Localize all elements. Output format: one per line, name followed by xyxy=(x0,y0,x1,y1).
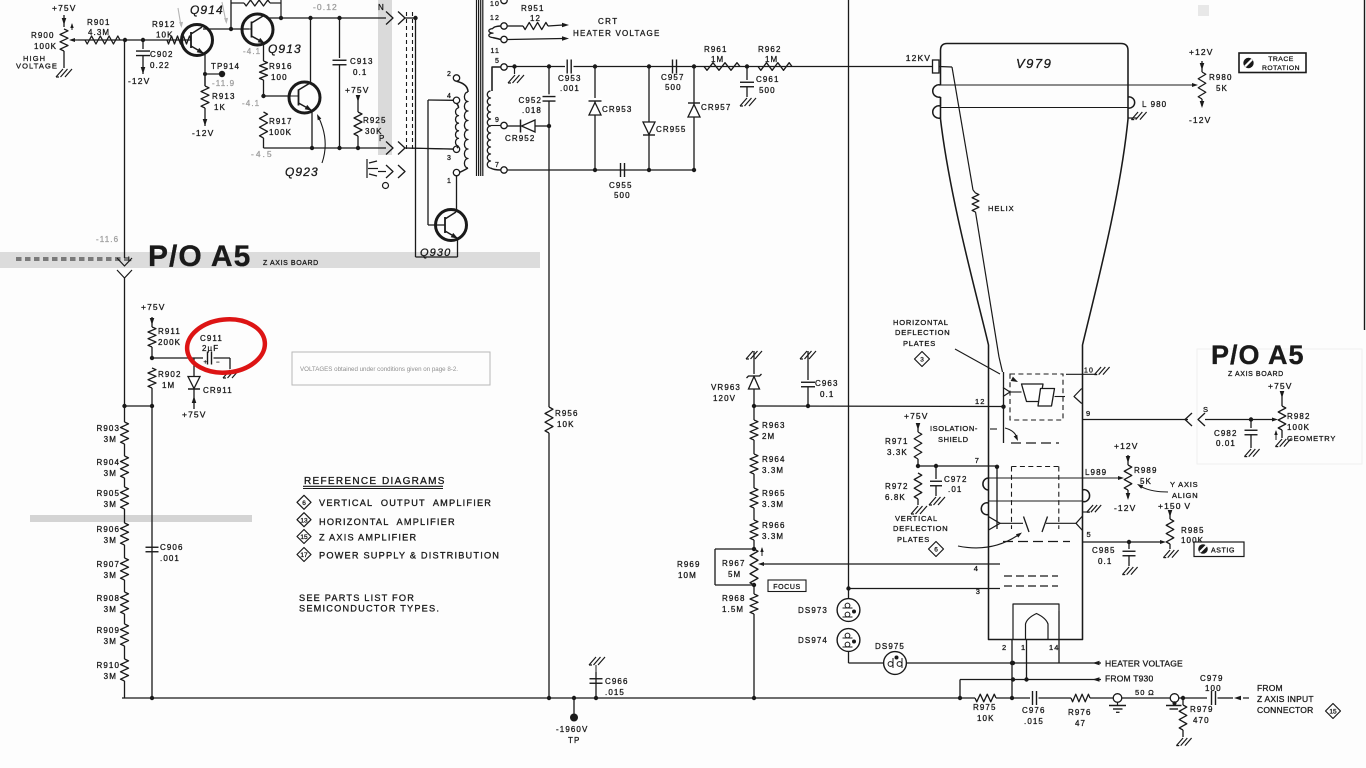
svg-text:4: 4 xyxy=(447,93,452,100)
svg-text:Y AXIS: Y AXIS xyxy=(1170,480,1198,489)
svg-text:1K: 1K xyxy=(214,103,226,112)
svg-text:CRT: CRT xyxy=(598,17,619,26)
svg-text:R925: R925 xyxy=(363,116,387,125)
svg-text:Q923: Q923 xyxy=(285,165,319,179)
svg-text:Z AXIS AMPLIFIER: Z AXIS AMPLIFIER xyxy=(319,533,417,543)
svg-text:R903: R903 xyxy=(96,424,120,433)
svg-text:R956: R956 xyxy=(555,409,579,418)
svg-text:6.8K: 6.8K xyxy=(885,493,906,502)
svg-text:+150 V: +150 V xyxy=(1158,501,1191,511)
svg-text:R907: R907 xyxy=(96,560,120,569)
svg-text:-0.12: -0.12 xyxy=(313,2,338,12)
svg-text:12KV: 12KV xyxy=(906,53,931,63)
svg-text:P/O A5: P/O A5 xyxy=(148,240,251,273)
svg-text:V979: V979 xyxy=(1016,56,1052,71)
svg-text:R963: R963 xyxy=(762,421,786,430)
svg-text:Q913: Q913 xyxy=(268,42,302,56)
svg-text:17: 17 xyxy=(300,552,308,559)
svg-text:12: 12 xyxy=(975,397,986,406)
svg-text:SEMICONDUCTOR TYPES.: SEMICONDUCTOR TYPES. xyxy=(299,604,440,614)
svg-text:5: 5 xyxy=(1087,530,1092,539)
svg-text:R969: R969 xyxy=(677,560,701,569)
svg-text:2M: 2M xyxy=(762,432,775,441)
svg-text:.01: .01 xyxy=(948,485,962,494)
svg-text:10: 10 xyxy=(1084,368,1094,375)
svg-text:Z AXIS INPUT: Z AXIS INPUT xyxy=(1257,694,1314,704)
svg-text:C963: C963 xyxy=(815,379,839,388)
svg-text:DIAGRAMS: DIAGRAMS xyxy=(382,476,446,487)
svg-text:100K: 100K xyxy=(1287,423,1310,432)
svg-text:.001: .001 xyxy=(560,84,580,93)
svg-text:C985: C985 xyxy=(1092,546,1116,555)
svg-text:VERTICAL: VERTICAL xyxy=(895,514,938,523)
svg-text:C966: C966 xyxy=(605,677,629,686)
svg-text:VR963: VR963 xyxy=(711,383,741,392)
svg-text:C957: C957 xyxy=(661,73,685,82)
svg-text:R911: R911 xyxy=(158,327,181,336)
svg-text:C953: C953 xyxy=(558,74,582,83)
svg-text:100: 100 xyxy=(1205,684,1222,693)
svg-text:2µF: 2µF xyxy=(202,344,219,353)
svg-text:3M: 3M xyxy=(104,435,117,444)
svg-text:3: 3 xyxy=(447,155,452,162)
svg-text:−: − xyxy=(216,360,221,366)
svg-text:+12V: +12V xyxy=(1114,441,1139,451)
svg-text:5: 5 xyxy=(495,58,500,65)
svg-text:1M: 1M xyxy=(711,55,724,64)
svg-text:C961: C961 xyxy=(756,75,780,84)
svg-text:VERTICAL OUTPUT AMPLIFIER: VERTICAL OUTPUT AMPLIFIER xyxy=(319,498,492,508)
svg-text:R972: R972 xyxy=(885,482,909,491)
svg-text:-11.9: -11.9 xyxy=(212,79,235,88)
svg-text:HORIZONTAL: HORIZONTAL xyxy=(893,318,949,327)
svg-text:P/O A5: P/O A5 xyxy=(1211,340,1305,370)
svg-text:3.3M: 3.3M xyxy=(762,500,784,509)
svg-text:+12V: +12V xyxy=(1189,47,1214,57)
svg-text:10K: 10K xyxy=(557,420,575,429)
svg-text:R905: R905 xyxy=(96,489,120,498)
svg-text:-4.5: -4.5 xyxy=(251,149,274,159)
svg-text:2: 2 xyxy=(1002,643,1007,652)
svg-text:1: 1 xyxy=(447,178,452,185)
svg-text:3: 3 xyxy=(920,357,924,364)
svg-text:3M: 3M xyxy=(104,571,117,580)
svg-text:ROTATION: ROTATION xyxy=(1262,65,1300,72)
svg-text:TRACE: TRACE xyxy=(1268,56,1294,63)
svg-text:C976: C976 xyxy=(1022,706,1046,715)
svg-text:.015: .015 xyxy=(605,688,625,697)
svg-text:12: 12 xyxy=(490,15,500,22)
svg-text:3: 3 xyxy=(976,587,981,596)
svg-text:C972: C972 xyxy=(944,475,968,484)
svg-text:0.1: 0.1 xyxy=(820,390,834,399)
svg-text:DEFLECTION: DEFLECTION xyxy=(893,524,949,533)
svg-text:-12V: -12V xyxy=(192,128,214,138)
svg-text:R979: R979 xyxy=(1190,705,1214,714)
svg-text:7: 7 xyxy=(495,162,500,169)
svg-text:2: 2 xyxy=(447,71,452,78)
svg-text:10M: 10M xyxy=(678,571,697,580)
svg-text:CONNECTOR: CONNECTOR xyxy=(1257,705,1313,715)
svg-text:1.5M: 1.5M xyxy=(722,605,744,614)
svg-text:-12V: -12V xyxy=(1114,503,1136,513)
svg-text:-4.1: -4.1 xyxy=(243,47,261,56)
svg-text:Q914: Q914 xyxy=(190,3,224,17)
svg-text:30K: 30K xyxy=(365,127,383,136)
svg-text:C952: C952 xyxy=(518,96,542,105)
svg-text:R962: R962 xyxy=(758,45,782,54)
svg-text:1M: 1M xyxy=(765,55,778,64)
svg-text:6: 6 xyxy=(302,500,306,507)
svg-text:R951: R951 xyxy=(521,4,545,13)
svg-text:R966: R966 xyxy=(762,521,786,530)
svg-text:C902: C902 xyxy=(150,50,174,59)
svg-text:9: 9 xyxy=(495,117,500,124)
svg-text:C979: C979 xyxy=(1200,674,1224,683)
svg-text:CR911: CR911 xyxy=(203,386,233,395)
svg-text:470: 470 xyxy=(1193,716,1210,725)
svg-text:PLATES: PLATES xyxy=(903,339,936,348)
svg-text:C906: C906 xyxy=(160,543,184,552)
svg-text:R917: R917 xyxy=(269,117,293,126)
svg-text:.015: .015 xyxy=(1024,717,1044,726)
svg-text:13: 13 xyxy=(300,517,308,524)
svg-text:12: 12 xyxy=(530,14,541,23)
svg-text:0.1: 0.1 xyxy=(353,68,367,77)
svg-text:+75V: +75V xyxy=(904,411,929,421)
svg-text:11: 11 xyxy=(491,48,500,55)
svg-text:R916: R916 xyxy=(269,62,293,71)
svg-text:DS973: DS973 xyxy=(798,606,828,615)
svg-text:FOCUS: FOCUS xyxy=(773,584,801,591)
svg-text:R976: R976 xyxy=(1068,708,1092,717)
svg-text:3M: 3M xyxy=(104,536,117,545)
svg-text:SEE PARTS LIST FOR: SEE PARTS LIST FOR xyxy=(299,593,415,603)
svg-text:CR955: CR955 xyxy=(656,125,686,134)
svg-text:14: 14 xyxy=(1049,643,1060,652)
svg-text:+75V: +75V xyxy=(141,302,166,312)
svg-text:R961: R961 xyxy=(704,45,728,54)
svg-text:VOLTAGE: VOLTAGE xyxy=(16,62,58,71)
svg-text:DS975: DS975 xyxy=(875,642,905,651)
svg-text:R909: R909 xyxy=(96,626,120,635)
svg-text:L989: L989 xyxy=(1085,468,1107,477)
svg-text:.018: .018 xyxy=(522,106,542,115)
svg-text:R900: R900 xyxy=(31,31,55,40)
svg-text:R975: R975 xyxy=(973,703,997,712)
svg-text:Q930: Q930 xyxy=(420,247,451,259)
svg-text:-12V: -12V xyxy=(128,76,150,86)
svg-text:-4.1: -4.1 xyxy=(242,99,260,108)
svg-text:Z AXIS BOARD: Z AXIS BOARD xyxy=(263,260,319,267)
svg-text:3M: 3M xyxy=(104,672,117,681)
svg-text:5M: 5M xyxy=(728,570,741,579)
svg-text:-12V: -12V xyxy=(1189,115,1211,125)
svg-text:6: 6 xyxy=(934,547,938,554)
svg-text:R982: R982 xyxy=(1287,412,1311,421)
svg-text:100K: 100K xyxy=(34,42,57,51)
svg-text:100: 100 xyxy=(271,73,288,82)
svg-text:R985: R985 xyxy=(1181,526,1205,535)
svg-text:+: + xyxy=(204,360,209,366)
svg-text:R980: R980 xyxy=(1209,73,1233,82)
svg-text:R912: R912 xyxy=(152,20,176,29)
svg-text:+75V: +75V xyxy=(182,410,207,420)
svg-text:R971: R971 xyxy=(885,437,909,446)
svg-text:R901: R901 xyxy=(87,18,111,27)
svg-text:R964: R964 xyxy=(762,455,786,464)
svg-text:SHIELD: SHIELD xyxy=(938,435,969,444)
svg-text:VOLTAGES obtained under condit: VOLTAGES obtained under conditions given… xyxy=(300,366,458,373)
svg-text:C955: C955 xyxy=(609,181,633,190)
svg-text:15: 15 xyxy=(300,534,308,541)
svg-text:GEOMETRY: GEOMETRY xyxy=(1287,434,1336,443)
svg-text:5K: 5K xyxy=(1216,84,1228,93)
svg-text:DEFLECTION: DEFLECTION xyxy=(895,328,951,337)
svg-text:1: 1 xyxy=(1021,643,1026,652)
svg-text:500: 500 xyxy=(665,83,682,92)
svg-text:.001: .001 xyxy=(160,554,180,563)
svg-text:L 980: L 980 xyxy=(1142,100,1167,109)
svg-text:R913: R913 xyxy=(212,92,236,101)
svg-text:CR957: CR957 xyxy=(701,103,731,112)
svg-text:R904: R904 xyxy=(96,458,120,467)
svg-text:ALIGN: ALIGN xyxy=(1172,491,1199,500)
svg-text:4: 4 xyxy=(974,564,979,573)
svg-text:10: 10 xyxy=(490,1,500,8)
svg-text:7: 7 xyxy=(975,456,980,465)
svg-text:0.01: 0.01 xyxy=(1216,439,1236,448)
svg-text:N: N xyxy=(378,3,385,12)
svg-text:3M: 3M xyxy=(104,469,117,478)
svg-text:S: S xyxy=(1203,405,1209,414)
svg-text:15: 15 xyxy=(1329,709,1337,716)
svg-text:R968: R968 xyxy=(722,594,746,603)
svg-text:CR952: CR952 xyxy=(505,134,535,143)
svg-text:1M: 1M xyxy=(162,381,175,390)
svg-text:3M: 3M xyxy=(104,500,117,509)
svg-text:DS974: DS974 xyxy=(798,636,828,645)
svg-text:-11.6: -11.6 xyxy=(96,235,119,244)
svg-text:100K: 100K xyxy=(269,128,292,137)
svg-text:R908: R908 xyxy=(96,594,120,603)
svg-text:50 Ω: 50 Ω xyxy=(1135,688,1155,697)
svg-text:47: 47 xyxy=(1075,719,1086,728)
svg-text:3M: 3M xyxy=(104,637,117,646)
svg-text:R989: R989 xyxy=(1134,466,1158,475)
svg-text:REFERENCE: REFERENCE xyxy=(304,476,377,487)
svg-text:TP914: TP914 xyxy=(211,62,240,71)
svg-text:FROM: FROM xyxy=(1257,683,1283,693)
svg-text:+75V: +75V xyxy=(1268,381,1293,391)
svg-text:HORIZONTAL AMPLIFIER: HORIZONTAL AMPLIFIER xyxy=(319,517,456,527)
svg-text:500: 500 xyxy=(614,191,631,200)
svg-text:Z AXIS BOARD: Z AXIS BOARD xyxy=(1228,371,1284,378)
svg-text:R967: R967 xyxy=(722,559,746,568)
svg-text:3.3K: 3.3K xyxy=(887,448,908,457)
svg-text:HELIX: HELIX xyxy=(988,204,1015,213)
svg-text:9: 9 xyxy=(1086,409,1091,418)
svg-text:FROM T930: FROM T930 xyxy=(1105,674,1153,684)
svg-text:10K: 10K xyxy=(977,714,995,723)
svg-text:R906: R906 xyxy=(96,525,120,534)
svg-text:200K: 200K xyxy=(158,338,181,347)
svg-text:R910: R910 xyxy=(96,661,120,670)
svg-text:C911: C911 xyxy=(200,334,223,343)
svg-text:+75V: +75V xyxy=(345,85,370,95)
svg-text:500: 500 xyxy=(759,86,776,95)
svg-text:+75V: +75V xyxy=(52,3,77,13)
svg-text:C913: C913 xyxy=(350,57,374,66)
svg-text:C982: C982 xyxy=(1214,429,1238,438)
svg-text:3.3M: 3.3M xyxy=(762,466,784,475)
svg-text:TP: TP xyxy=(568,736,580,745)
svg-text:3M: 3M xyxy=(104,605,117,614)
svg-text:0.1: 0.1 xyxy=(1098,557,1112,566)
svg-text:3.3M: 3.3M xyxy=(762,532,784,541)
svg-text:HEATER VOLTAGE: HEATER VOLTAGE xyxy=(1105,659,1183,669)
svg-text:120V: 120V xyxy=(713,394,736,403)
svg-text:5K: 5K xyxy=(1140,477,1152,486)
svg-text:-1960V: -1960V xyxy=(556,725,588,734)
svg-text:PLATES: PLATES xyxy=(897,535,930,544)
svg-text:HEATER VOLTAGE: HEATER VOLTAGE xyxy=(573,29,660,38)
svg-text:R965: R965 xyxy=(762,489,786,498)
svg-text:CR953: CR953 xyxy=(602,105,632,114)
svg-text:ISOLATION-: ISOLATION- xyxy=(930,424,978,433)
svg-text:POWER SUPPLY & DISTRIBUTION: POWER SUPPLY & DISTRIBUTION xyxy=(319,551,500,561)
svg-text:ASTIG: ASTIG xyxy=(1211,548,1235,555)
svg-text:R902: R902 xyxy=(158,370,182,379)
svg-text:0.22: 0.22 xyxy=(150,61,170,70)
